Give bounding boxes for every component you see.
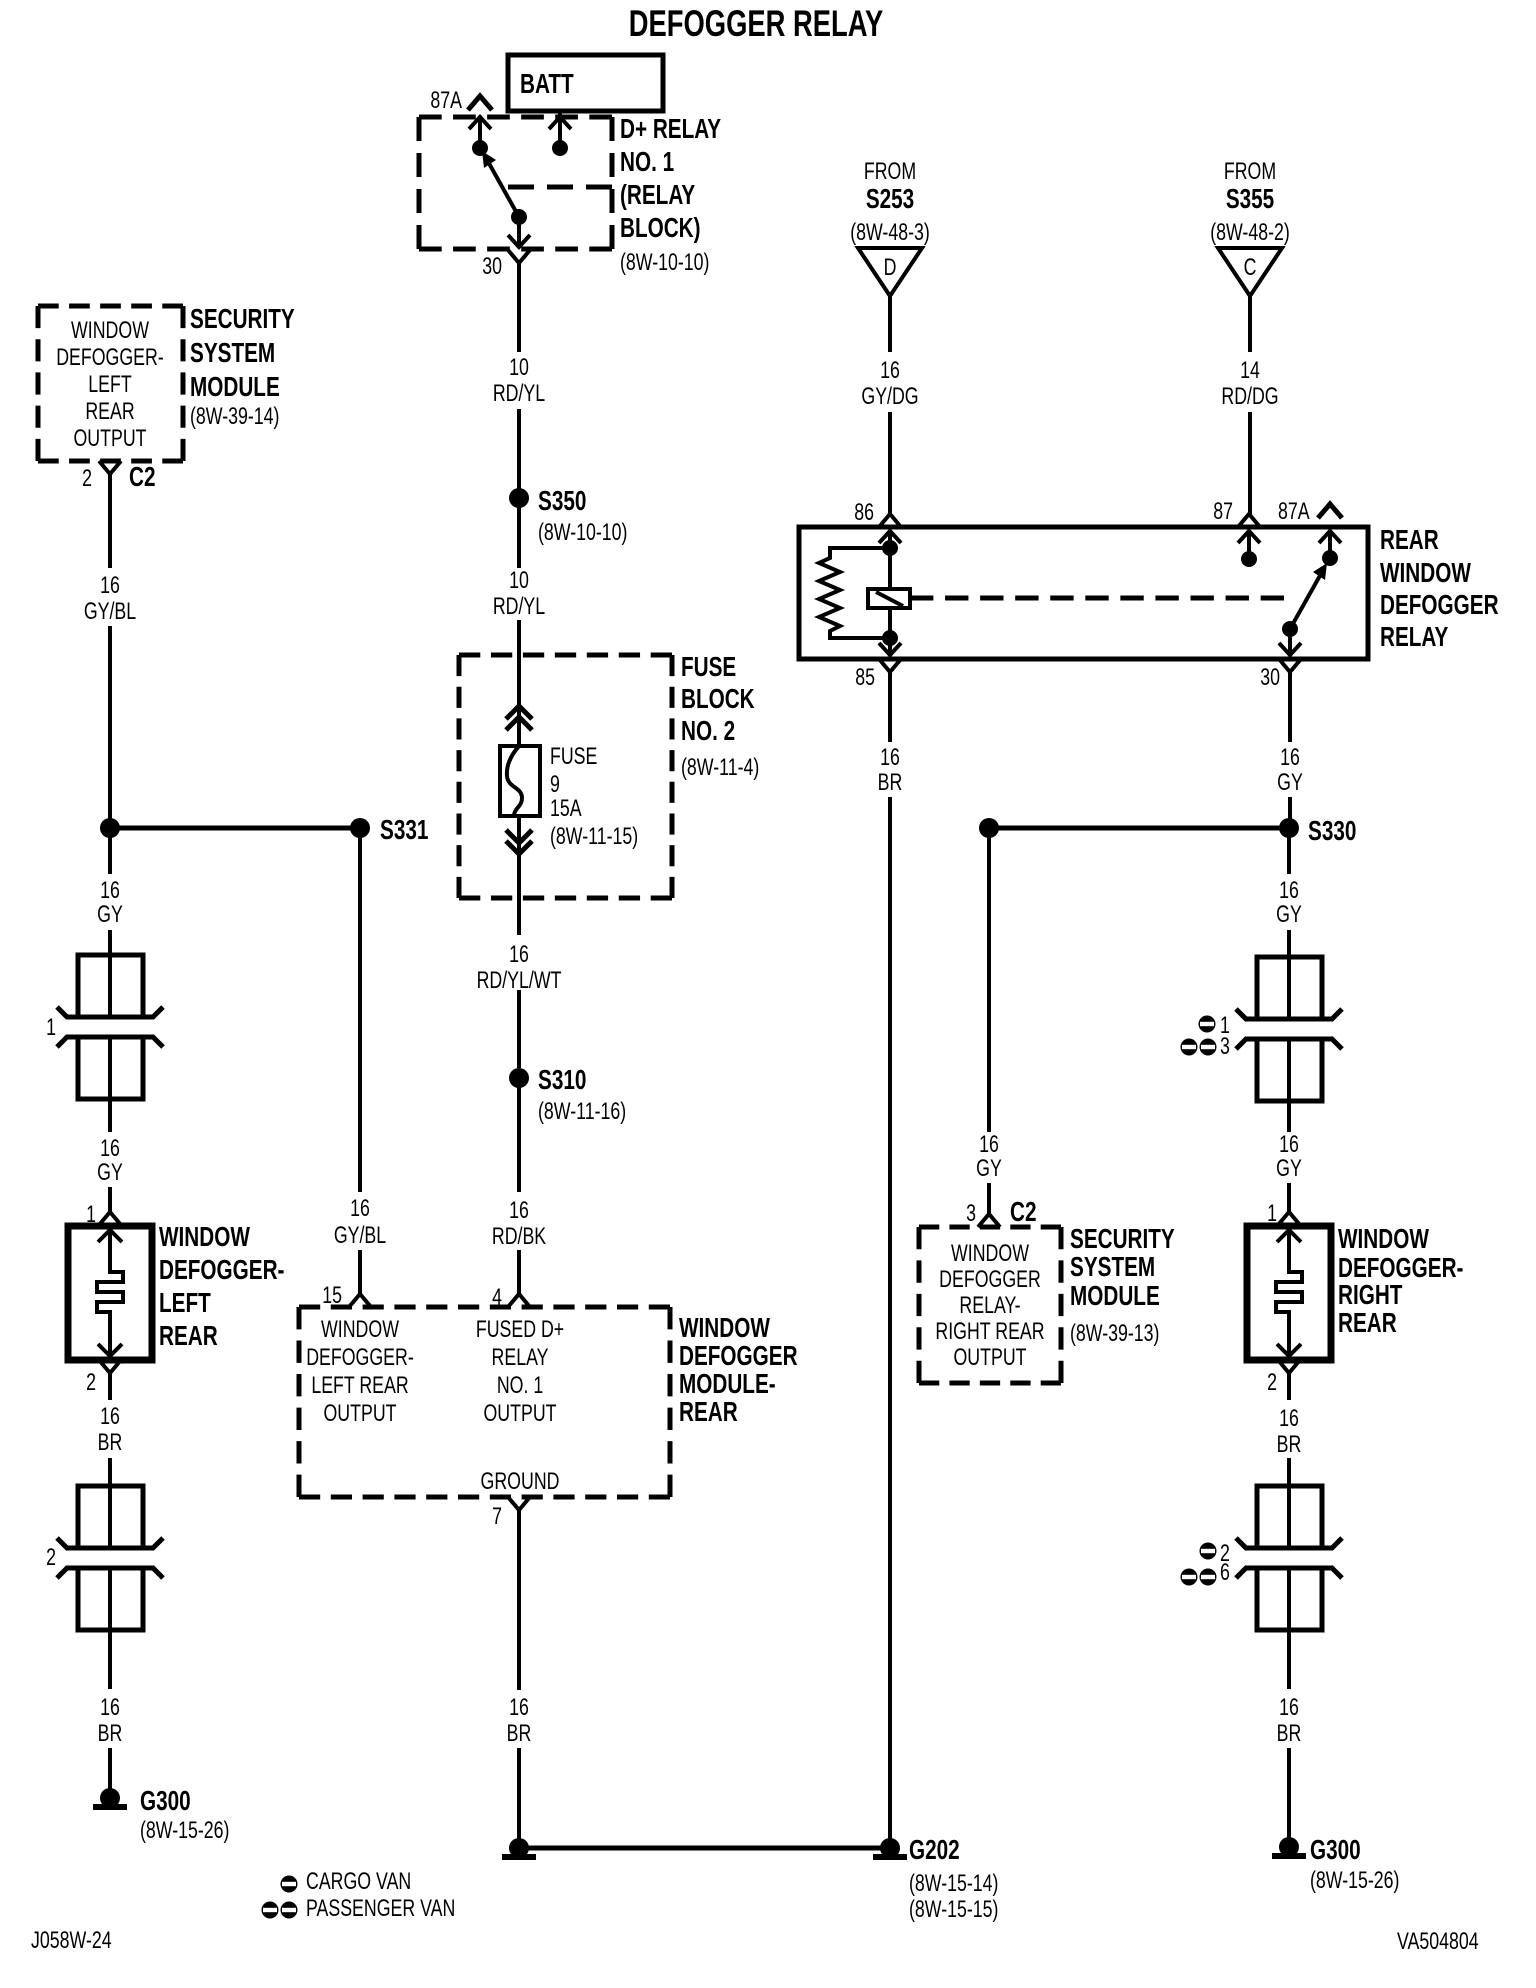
terminal 87A inside: arrow and contact dot — [469, 117, 491, 129]
pin 7 fork — [508, 1497, 530, 1510]
wire 16 GY — [108, 1099, 112, 1132]
svg-text:16: 16 — [350, 1196, 370, 1222]
double chevron out — [506, 830, 532, 854]
wire 16 GY left column — [108, 836, 112, 874]
relay common to pin 30 — [1288, 629, 1292, 655]
svg-text:16: 16 — [1279, 1406, 1299, 1432]
svg-text:WINDOW: WINDOW — [679, 1313, 771, 1344]
svg-text:RELAY: RELAY — [492, 1345, 549, 1371]
svg-text:C2: C2 — [129, 462, 155, 493]
cargo van pin 2 marker — [1200, 1543, 1217, 1560]
svg-text:WINDOW: WINDOW — [71, 318, 149, 344]
in-line connector 2/6 (right lower) — [1236, 1486, 1342, 1630]
svg-text:SECURITY: SECURITY — [190, 304, 295, 335]
svg-text:RIGHT REAR: RIGHT REAR — [935, 1319, 1044, 1345]
svg-text:GY/BL: GY/BL — [84, 599, 137, 625]
svg-text:(8W-48-3): (8W-48-3) — [850, 220, 930, 246]
svg-text:FUSED D+: FUSED D+ — [476, 1317, 564, 1343]
terminal 87 inside — [1238, 531, 1260, 543]
svg-text:16: 16 — [100, 1404, 120, 1430]
svg-text:GY: GY — [1276, 1156, 1302, 1182]
wire — [517, 409, 521, 490]
svg-text:BR: BR — [878, 770, 903, 796]
pin 15 fork — [349, 1294, 371, 1307]
svg-text:16: 16 — [1279, 1132, 1299, 1158]
svg-text:2: 2 — [82, 466, 92, 492]
svg-text:DEFOGGER: DEFOGGER — [1380, 590, 1499, 621]
svg-text:GY: GY — [97, 902, 123, 928]
svg-text:NO. 1: NO. 1 — [497, 1373, 543, 1399]
battery feed box BATT — [508, 55, 663, 111]
svg-text:7: 7 — [492, 1504, 502, 1530]
svg-text:BR: BR — [507, 1721, 532, 1747]
svg-text:REAR: REAR — [85, 399, 134, 425]
svg-text:BR: BR — [98, 1430, 123, 1456]
svg-text:16: 16 — [100, 1136, 120, 1162]
rear window defogger relay box — [799, 527, 1368, 659]
pin 87A terminal caret — [468, 96, 492, 110]
relay coil — [819, 548, 889, 638]
svg-text:OUTPUT: OUTPUT — [483, 1401, 556, 1427]
wire 16 BR from pin 85 to G202 — [888, 672, 892, 742]
svg-text:2: 2 — [46, 1545, 56, 1571]
svg-text:16: 16 — [509, 942, 529, 968]
svg-text:(8W-39-14): (8W-39-14) — [190, 404, 279, 430]
in-line connector 2 (left lower) — [57, 1486, 163, 1630]
window defogger-right rear element — [1247, 1226, 1331, 1360]
svg-text:GY: GY — [976, 1156, 1002, 1182]
svg-text:(8W-10-10): (8W-10-10) — [538, 520, 627, 546]
svg-text:LEFT: LEFT — [159, 1288, 211, 1319]
junction node — [100, 818, 120, 838]
svg-text:87: 87 — [1213, 499, 1233, 525]
svg-text:16: 16 — [1279, 878, 1299, 904]
passenger van pin 3 marker — [1181, 1039, 1198, 1056]
svg-text:FROM: FROM — [1224, 159, 1276, 185]
window defogger module dashed box — [299, 1307, 670, 1497]
svg-text:WINDOW: WINDOW — [1380, 558, 1472, 589]
svg-text:MODULE-: MODULE- — [679, 1369, 776, 1400]
svg-text:16: 16 — [509, 1198, 529, 1224]
security system module (right) dashed box — [919, 1227, 1061, 1383]
svg-text:2: 2 — [1267, 1370, 1277, 1396]
svg-text:RELAY: RELAY — [1380, 622, 1449, 653]
wire 16 BR to G300 — [108, 1630, 112, 1689]
relay switch blade — [486, 158, 519, 217]
svg-text:(8W-15-26): (8W-15-26) — [140, 1818, 229, 1844]
svg-text:(8W-11-15): (8W-11-15) — [550, 824, 638, 850]
svg-text:WINDOW: WINDOW — [159, 1222, 251, 1253]
svg-text:30: 30 — [1260, 665, 1280, 691]
svg-text:G202: G202 — [909, 1835, 960, 1866]
ground G300 (left) — [93, 1788, 127, 1810]
svg-text:GY: GY — [1277, 770, 1303, 796]
svg-text:BLOCK): BLOCK) — [620, 213, 701, 244]
svg-text:OUTPUT: OUTPUT — [73, 426, 146, 452]
svg-text:S310: S310 — [538, 1065, 586, 1096]
svg-text:LEFT: LEFT — [88, 372, 132, 398]
splice S350 — [509, 488, 529, 508]
splice S310 — [509, 1068, 529, 1088]
svg-text:LEFT REAR: LEFT REAR — [311, 1373, 408, 1399]
svg-text:GROUND: GROUND — [481, 1469, 560, 1495]
wire 16 RD/BK — [517, 1086, 521, 1192]
svg-text:16: 16 — [509, 1695, 529, 1721]
wire S331 down 16 GY/BL — [358, 836, 362, 1192]
svg-text:S350: S350 — [538, 486, 586, 517]
svg-text:10: 10 — [509, 355, 529, 381]
svg-text:BR: BR — [1277, 1432, 1302, 1458]
svg-text:MODULE: MODULE — [190, 372, 280, 403]
svg-text:10: 10 — [509, 568, 529, 594]
svg-text:S253: S253 — [866, 184, 914, 215]
svg-text:G300: G300 — [140, 1786, 191, 1817]
svg-text:S355: S355 — [1226, 184, 1275, 215]
svg-text:16: 16 — [100, 1695, 120, 1721]
svg-text:RD/YL: RD/YL — [493, 381, 546, 407]
security system module (left) dashed box — [38, 306, 183, 461]
svg-text:3: 3 — [1220, 1034, 1230, 1060]
svg-text:16: 16 — [1280, 745, 1300, 771]
fuse F9 15A — [500, 746, 540, 816]
svg-text:GY/DG: GY/DG — [861, 384, 918, 410]
svg-text:(8W-48-2): (8W-48-2) — [1210, 220, 1290, 246]
svg-text:16: 16 — [880, 358, 900, 384]
svg-text:DEFOGGER-: DEFOGGER- — [56, 345, 164, 371]
wire out of fuse — [517, 816, 521, 935]
svg-text:DEFOGGER-: DEFOGGER- — [306, 1345, 414, 1371]
wire S330 branch left — [989, 826, 1289, 831]
in-line connector 1 (left upper) — [57, 955, 163, 1099]
svg-text:FROM: FROM — [864, 159, 916, 185]
svg-text:RD/BK: RD/BK — [492, 1224, 546, 1250]
svg-text:15: 15 — [322, 1283, 342, 1309]
svg-text:85: 85 — [855, 665, 875, 691]
svg-text:SECURITY: SECURITY — [1070, 1224, 1175, 1255]
svg-text:DEFOGGER-: DEFOGGER- — [159, 1255, 284, 1286]
wire 10 RD/YL upper — [517, 278, 521, 352]
svg-text:(8W-15-15): (8W-15-15) — [909, 1897, 998, 1923]
splice S330 — [1279, 818, 1299, 838]
svg-text:DEFOGGER: DEFOGGER — [679, 1341, 798, 1372]
svg-text:REAR: REAR — [159, 1321, 218, 1352]
in-line connector 1/3 (right upper) — [1236, 957, 1342, 1101]
svg-text:RD/YL: RD/YL — [493, 594, 546, 620]
svg-text:S331: S331 — [380, 815, 429, 846]
svg-text:GY: GY — [97, 1160, 123, 1186]
svg-text:WINDOW: WINDOW — [321, 1317, 399, 1343]
pin 30 connector fork — [508, 250, 530, 263]
wire 16 GY/BL — [108, 474, 112, 568]
terminal 85 inside — [888, 638, 892, 656]
svg-text:14: 14 — [1240, 358, 1260, 384]
wire 16 BR to G300 — [1287, 1630, 1291, 1689]
svg-text:MODULE: MODULE — [1070, 1281, 1160, 1312]
svg-text:(8W-11-4): (8W-11-4) — [681, 755, 759, 781]
ground G202 node (module side) — [502, 1838, 536, 1860]
wire 16 BR — [1287, 1373, 1291, 1400]
svg-text:9: 9 — [550, 772, 560, 798]
wire joining grounds — [519, 1846, 890, 1851]
svg-text:2: 2 — [86, 1370, 96, 1396]
wire 16 BR — [108, 1373, 112, 1400]
svg-text:6: 6 — [1220, 1560, 1230, 1586]
svg-text:DEFOGGER RELAY: DEFOGGER RELAY — [629, 3, 884, 44]
svg-text:GY/BL: GY/BL — [334, 1223, 387, 1249]
svg-text:SYSTEM: SYSTEM — [1070, 1252, 1155, 1283]
svg-text:BR: BR — [98, 1721, 123, 1747]
splice S331 — [350, 818, 370, 838]
fuse block no.2 dashed box — [459, 655, 672, 898]
wire 16 BR to ground — [517, 1510, 521, 1690]
svg-text:RD/YL/WT: RD/YL/WT — [477, 968, 562, 994]
window defogger-left rear element — [68, 1226, 152, 1360]
svg-text:RELAY-: RELAY- — [959, 1293, 1020, 1319]
svg-text:DEFOGGER: DEFOGGER — [939, 1267, 1041, 1293]
relay switch blade — [1290, 572, 1322, 629]
svg-text:(8W-39-13): (8W-39-13) — [1070, 1321, 1159, 1347]
svg-text:1: 1 — [46, 1015, 56, 1041]
wire — [517, 990, 521, 1068]
relay common stem to pin 30 — [517, 217, 521, 246]
relay D+ RELAY NO. 1 dashed box — [419, 117, 612, 249]
svg-text:GY: GY — [1276, 902, 1302, 928]
cargo van pin 1 marker — [1199, 1016, 1216, 1033]
ground G202 — [873, 1838, 907, 1860]
svg-text:16: 16 — [100, 878, 120, 904]
terminal 86 inside — [879, 531, 901, 543]
svg-text:87A: 87A — [1278, 499, 1310, 525]
svg-text:30: 30 — [482, 254, 502, 280]
svg-text:CARGO VAN: CARGO VAN — [306, 1869, 411, 1895]
svg-text:BR: BR — [1277, 1721, 1302, 1747]
svg-text:FUSE: FUSE — [681, 652, 736, 683]
wire 16 GY/DG — [888, 296, 892, 352]
svg-text:S330: S330 — [1308, 816, 1356, 847]
svg-text:PASSENGER VAN: PASSENGER VAN — [306, 1896, 455, 1922]
svg-text:WINDOW: WINDOW — [951, 1241, 1029, 1267]
svg-text:REAR: REAR — [1338, 1308, 1397, 1339]
svg-text:OUTPUT: OUTPUT — [323, 1401, 396, 1427]
wire into fuse block — [517, 620, 521, 746]
svg-text:J058W-24: J058W-24 — [31, 1928, 112, 1954]
svg-text:RIGHT: RIGHT — [1338, 1280, 1402, 1311]
svg-text:87A: 87A — [430, 88, 462, 114]
wire 10 RD/YL lower — [517, 506, 521, 568]
wire to splice S331 — [110, 826, 360, 831]
svg-text:D: D — [884, 255, 897, 281]
wire BATT to relay terminal — [558, 111, 562, 144]
svg-text:3: 3 — [966, 1201, 976, 1227]
svg-text:OUTPUT: OUTPUT — [953, 1345, 1026, 1371]
svg-text:BLOCK: BLOCK — [681, 684, 755, 715]
svg-text:D+ RELAY: D+ RELAY — [620, 114, 722, 145]
svg-text:16: 16 — [1279, 1695, 1299, 1721]
ground G300 (right) — [1272, 1837, 1306, 1859]
svg-text:(8W-11-16): (8W-11-16) — [538, 1099, 626, 1125]
wire 16 GY branch down — [987, 836, 991, 1132]
svg-text:(8W-10-10): (8W-10-10) — [620, 250, 709, 276]
svg-text:(8W-15-14): (8W-15-14) — [909, 1871, 998, 1897]
passenger van pin 6 marker — [1181, 1569, 1198, 1586]
svg-text:(RELAY: (RELAY — [620, 180, 696, 211]
svg-text:BATT: BATT — [520, 69, 574, 100]
svg-text:VA504804: VA504804 — [1397, 1929, 1479, 1955]
svg-text:FUSE: FUSE — [550, 744, 597, 770]
legend passenger van — [262, 1902, 279, 1919]
relay actuating dashed line — [910, 596, 1284, 601]
svg-text:16: 16 — [979, 1132, 999, 1158]
svg-text:SYSTEM: SYSTEM — [190, 338, 275, 369]
wire 14 RD/DG — [1248, 296, 1252, 352]
svg-text:REAR: REAR — [1380, 525, 1439, 556]
wire 16 GY — [1287, 1101, 1291, 1132]
svg-text:C: C — [1244, 255, 1257, 281]
legend cargo van — [281, 1876, 298, 1893]
svg-text:16: 16 — [100, 573, 120, 599]
pin 4 fork — [508, 1294, 530, 1307]
svg-text:C2: C2 — [1010, 1197, 1036, 1228]
svg-text:NO. 1: NO. 1 — [620, 147, 674, 178]
svg-text:REAR: REAR — [679, 1397, 738, 1428]
svg-text:(8W-15-26): (8W-15-26) — [1310, 1868, 1399, 1894]
svg-text:86: 86 — [854, 500, 874, 526]
svg-text:NO. 2: NO. 2 — [681, 716, 735, 747]
double chevron in — [506, 706, 532, 730]
svg-text:G300: G300 — [1310, 1835, 1361, 1866]
svg-text:16: 16 — [880, 745, 900, 771]
wire 16 GY from pin 30 — [1288, 672, 1292, 742]
svg-text:15A: 15A — [550, 796, 582, 822]
terminal 87A inside — [1319, 531, 1341, 543]
svg-text:WINDOW: WINDOW — [1338, 1224, 1430, 1255]
svg-text:RD/DG: RD/DG — [1221, 384, 1278, 410]
